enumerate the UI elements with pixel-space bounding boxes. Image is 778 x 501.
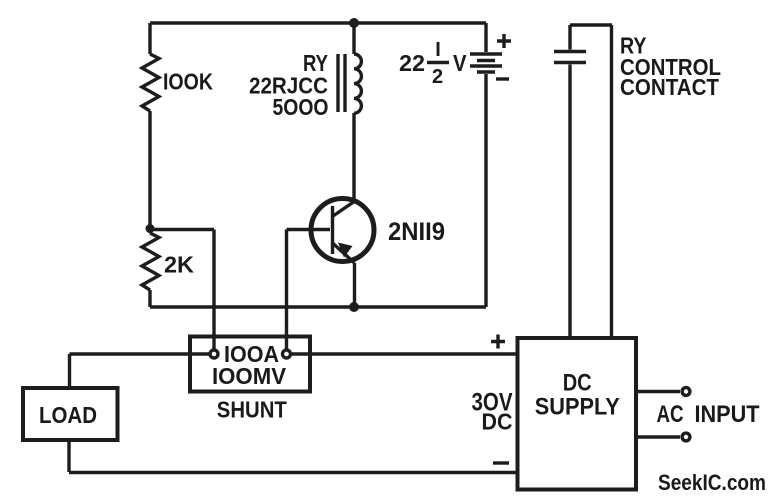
svg-text:V: V xyxy=(453,50,467,76)
capacitor C1 top wire (570,25)-(612,25) xyxy=(570,23,612,26)
wire top horizontal (150,23)-(486,23) xyxy=(150,21,486,24)
capacitor C1 lower lead (570,64.5)-(570,338) xyxy=(568,65,571,339)
plus sign DC supply xyxy=(491,335,505,349)
transistor Q1 base lead xyxy=(287,228,331,231)
battery long plate 2 xyxy=(470,64,502,67)
battery short plate 2 xyxy=(477,70,495,73)
shunt box xyxy=(190,337,310,392)
battery minus sign xyxy=(496,77,509,80)
wire node to shunt left (150,229)-(214,229) xyxy=(150,228,214,231)
battery plus sign xyxy=(497,34,511,48)
relay core bar 1 xyxy=(336,54,339,112)
battery B1 top lead (486,23)-(486,52) xyxy=(484,23,487,52)
svg-text:IOOK: IOOK xyxy=(163,69,213,95)
svg-text:I: I xyxy=(435,39,441,61)
transistor Q1 emitter arrow xyxy=(338,243,353,258)
transistor Q1 collector wire (354,113)-(353.5,207) xyxy=(333,113,354,217)
svg-text:IOOMV: IOOMV xyxy=(212,363,287,389)
svg-text:CONTACT: CONTACT xyxy=(620,74,719,100)
wire load bottom vertical (69,440)-(69,472) xyxy=(67,440,70,472)
capacitor C1 upper lead (570,25)-(570,49.5) xyxy=(568,25,571,50)
wire shunt left vertical (214,229)-(214,349) xyxy=(212,230,215,350)
wire left vertical lower (150,290)-(150,307) xyxy=(148,290,151,307)
wire shunt out horizontal (292,354)-(517,354) xyxy=(292,352,517,355)
relay coil RY loops xyxy=(354,54,361,113)
resistor R2 2K zigzag xyxy=(142,233,159,290)
fraction bar xyxy=(427,61,449,64)
svg-text:SHUNT: SHUNT xyxy=(217,397,287,423)
svg-text:LOAD: LOAD xyxy=(39,402,97,428)
wire bottom horizontal (69,472)-(517,472) xyxy=(69,471,517,474)
svg-text:INPUT: INPUT xyxy=(695,401,760,428)
relay core bar 2 xyxy=(343,54,346,112)
minus sign DC supply xyxy=(493,461,509,464)
svg-text:DC: DC xyxy=(482,409,513,435)
transistor Q1 circle xyxy=(311,199,374,262)
transistor Q1 base bar xyxy=(331,206,334,254)
wire left vertical middle (150,111)-(150,233) xyxy=(148,111,151,233)
relay coil RY upper lead (354,23)-(354,54) xyxy=(352,23,355,54)
battery long plate 1 xyxy=(470,52,502,55)
svg-text:2NII9: 2NII9 xyxy=(388,218,445,246)
svg-text:SUPPLY: SUPPLY xyxy=(535,394,620,421)
capacitor C1 plate bottom xyxy=(554,61,586,64)
transistor Q1 emitter lead (354,263)-(354,307) xyxy=(353,263,356,307)
wire load top vertical (69.5,354)-(69.5,388) xyxy=(68,354,71,388)
svg-text:2: 2 xyxy=(432,66,443,88)
wire left vertical upper (150,23)-(150,54) xyxy=(148,23,151,54)
wire AC terminal lower (636,437)-(680,437) xyxy=(636,435,680,438)
wire shunt feed horizontal (69.5,354)-(209,354) xyxy=(70,352,210,355)
svg-text:DC: DC xyxy=(563,370,592,397)
AC terminal circle lower xyxy=(682,433,690,441)
junction dot left node xyxy=(146,224,155,233)
wire shunt stub right inside xyxy=(285,334,288,349)
svg-text:AC: AC xyxy=(657,401,684,428)
svg-text:SeekIC.com: SeekIC.com xyxy=(658,470,766,495)
svg-text:5OOO: 5OOO xyxy=(273,94,329,120)
load box xyxy=(23,388,118,440)
junction dot emitter node xyxy=(349,302,359,312)
battery short plate 1 xyxy=(477,59,495,62)
wire base corner vertical (286.5,229)-(286.5,349) xyxy=(285,230,288,350)
transistor Q1 emitter xyxy=(333,243,355,263)
DC supply box xyxy=(518,338,637,490)
AC terminal circle upper xyxy=(682,388,690,396)
wire bottom of upper loop (150,307)-(486,307) xyxy=(150,305,486,308)
battery bottom lead (486,74)-(486,307) xyxy=(484,74,487,307)
shunt terminal left xyxy=(210,350,218,358)
junction dot top node xyxy=(349,18,359,28)
wire AC terminal upper (636,391.5)-(680,391.5) xyxy=(636,390,680,393)
resistor R1 100K zigzag xyxy=(142,54,159,111)
transistor Q1 collector inside xyxy=(333,202,354,216)
wire RY control contact vertical (611.5,25)-(611.5,338) xyxy=(610,25,613,338)
wire shunt stub left inside xyxy=(212,334,215,349)
svg-text:2K: 2K xyxy=(164,252,194,278)
shunt terminal right xyxy=(283,350,291,358)
svg-text:22: 22 xyxy=(399,50,425,76)
capacitor C1 plate top xyxy=(554,50,586,53)
